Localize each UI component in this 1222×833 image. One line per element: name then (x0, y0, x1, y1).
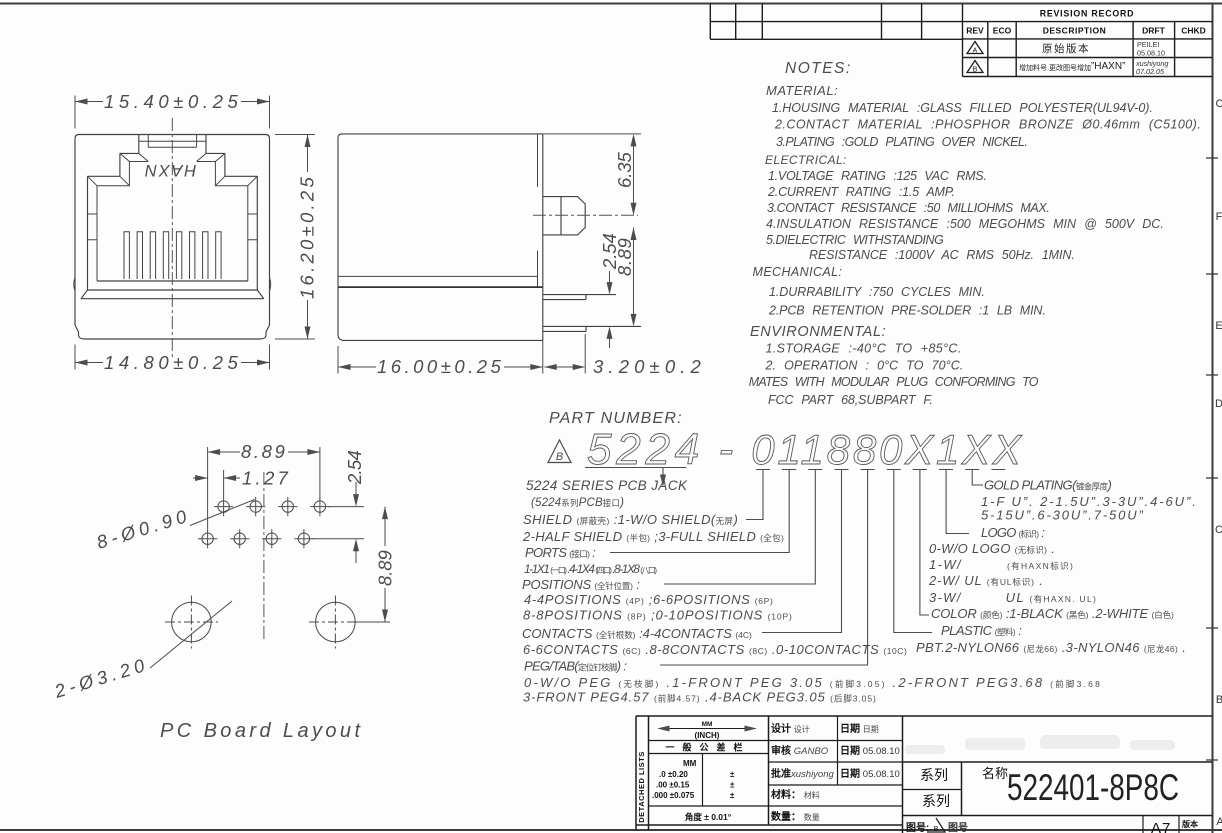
side view top edge extension (543, 133, 641, 135)
svg-text:1-1X1 (一口) .4-1X4 (四口) .8-1X8: 1-1X1 (一口) .4-1X4 (四口) .8-1X8 (八口) (524, 562, 657, 576)
svg-text:A7: A7 (1151, 820, 1171, 833)
side view inner face line (537, 135, 539, 288)
svg-text:2-Ø3.20: 2-Ø3.20 (51, 654, 149, 702)
svg-text:数量： 数量: 数量： 数量 (771, 810, 820, 823)
svg-text:LOGO (标识) :: LOGO (标识) : (981, 525, 1045, 540)
front view opening bottom lines (81, 281, 264, 299)
side view peg (543, 197, 585, 235)
svg-text:8.89: 8.89 (241, 441, 287, 462)
svg-text:角度 ± 0.01°: 角度 ± 0.01° (685, 812, 732, 822)
svg-text:DRFT: DRFT (1142, 26, 1165, 36)
faint ghost marks in empty cell (905, 735, 1175, 754)
svg-text:B: B (934, 826, 939, 833)
svg-text:1.27: 1.27 (242, 468, 290, 489)
svg-text:.000 ±0.075: .000 ±0.075 (652, 791, 695, 800)
svg-text:4-4POSITIONS (4P) ;6-6POSITION: 4-4POSITIONS (4P) ;6-6POSITIONS (6P) (524, 592, 773, 607)
svg-text:0-W/O LOGO (无标识) .: 0-W/O LOGO (无标识) . (929, 541, 1055, 556)
front view body outline (75, 135, 270, 340)
svg-text:MM: MM (683, 759, 697, 768)
svg-text:系列: 系列 (922, 793, 950, 809)
svg-text:FCC PART 68,SUBPART F.: FCC PART 68,SUBPART F. (768, 393, 933, 407)
svg-text:DESCRIPTION: DESCRIPTION (1043, 26, 1107, 36)
svg-text:日期 05.08.10: 日期 05.08.10 (840, 744, 900, 757)
svg-text:1.STORAGE :-40°C TO +85°C.: 1.STORAGE :-40°C TO +85°C. (766, 342, 962, 356)
svg-text:3.20±0.2: 3.20±0.2 (593, 356, 703, 377)
svg-text:E: E (1215, 320, 1222, 332)
svg-text:2-HALF SHIELD (半包) ;3-FULL S: 2-HALF SHIELD (半包) ;3-FULL SHIELD (全包) (522, 529, 784, 544)
leader char8 1 to LOGO (946, 470, 969, 534)
svg-text:ELECTRICAL:: ELECTRICAL: (765, 153, 847, 167)
svg-text:5-15U”.6-30U”.7-50U”: 5-15U”.6-30U”.7-50U” (981, 508, 1143, 523)
svg-text:ECO: ECO (993, 26, 1012, 36)
front view vertical centerline (171, 118, 173, 357)
right section lines (903, 762, 1213, 833)
svg-text:2. OPERATION : 0°C TO 70°: 2. OPERATION : 0°C TO 70°C. (765, 359, 964, 373)
svg-text:NOTES:: NOTES: (785, 60, 852, 77)
svg-text:1.DURRABILITY :750 CYCLES M: 1.DURRABILITY :750 CYCLES MIN. (769, 285, 985, 299)
svg-text:-: - (719, 425, 734, 474)
svg-text:16.00±0.25: 16.00±0.25 (377, 356, 503, 377)
front view socket opening outer (88, 135, 258, 291)
svg-text:±: ± (730, 781, 735, 790)
svg-text:PBT.2-NYLON66 (尼龙66) .3-NYLON4: PBT.2-NYLON66 (尼龙66) .3-NYLON46 (尼龙46) . (916, 640, 1186, 655)
svg-text:8.89: 8.89 (375, 548, 396, 586)
svg-text:ENVIRONMENTAL:: ENVIRONMENTAL: (750, 324, 886, 340)
svg-text:2.CONTACT MATERIAL :PHOSPHO: 2.CONTACT MATERIAL :PHOSPHOR BRONZE Ø0.4… (774, 118, 1201, 132)
pcb pattern centerline (263, 472, 265, 642)
svg-text:名称: 名称 (982, 766, 1008, 781)
svg-text:16.20±0.25: 16.20±0.25 (297, 175, 318, 299)
svg-text:3-FRONT PEG4.57 (前脚4.57) .4-B: 3-FRONT PEG4.57 (前脚4.57) .4-BACK PEG3.05… (523, 690, 876, 705)
svg-text:图号:: 图号: (906, 822, 929, 833)
svg-text:3.CONTACT RESISTANCE :50 MI: 3.CONTACT RESISTANCE :50 MILLIOHMS MAX. (767, 201, 1050, 215)
svg-text:设计 设计: 设计 设计 (771, 722, 810, 735)
pcb dim 8.89 right (355, 507, 390, 622)
svg-text:07.02.05: 07.02.05 (1136, 67, 1165, 76)
svg-text:1.VOLTAGE RATING :125 VAC: 1.VOLTAGE RATING :125 VAC RMS. (768, 169, 987, 183)
side view peg centerline (533, 214, 638, 216)
svg-text:REV: REV (966, 26, 984, 36)
char ticks under part number (756, 469, 1005, 471)
svg-text:6-6CONTACTS (6C) .8-8CONTACTS: 6-6CONTACTS (6C) .8-8CONTACTS (8C) .0-10… (523, 642, 907, 657)
revision triangle B (967, 61, 983, 73)
leader char7 X to COLOR (920, 470, 929, 616)
revision row2 drft (1135, 59, 1168, 76)
dimension 8.89 line (side) (633, 228, 635, 315)
svg-text:PC Board Layout: PC Board Layout (160, 720, 362, 742)
pcb leader 2-dia3.20 (150, 601, 232, 668)
front view chamfer diagonals (88, 153, 258, 185)
svg-text:COLOR (颜色) :1-BLACK (黑色) .2-WH: COLOR (颜色) :1-BLACK (黑色) .2-WHITE (白色) (931, 606, 1174, 621)
svg-text:15.40±0.25: 15.40±0.25 (104, 91, 240, 112)
tolerance table lines (649, 741, 769, 807)
svg-text:B: B (556, 451, 563, 463)
svg-text:B: B (1216, 694, 1222, 706)
svg-text:0-W/O PEG (无枝脚) .1-FRONT PEG: 0-W/O PEG (无枝脚) .1-FRONT PEG 3.05 (前脚3.0… (524, 675, 1100, 690)
pcb small holes top row (214, 497, 330, 516)
front view socket opening inner contour (97, 162, 248, 282)
svg-text:C: C (1215, 524, 1222, 536)
svg-text:CONTACTS (全针根数) :4-4CONTACTS (: CONTACTS (全针根数) :4-4CONTACTS (4C) (522, 626, 752, 641)
tolerance row3 values (652, 759, 735, 800)
front view side groove ticks (88, 214, 258, 240)
tick from 5224 underline down to series text (662, 468, 664, 483)
svg-text:(INCH): (INCH) (695, 731, 720, 740)
svg-text:增加料号.更改图号增加”HAXN”: 增加料号.更改图号增加”HAXN” (1019, 61, 1125, 72)
svg-text:A: A (973, 48, 978, 55)
svg-text:批准xushiyong: 批准xushiyong (771, 767, 834, 780)
side view base separation lines (338, 275, 538, 277)
svg-text:6.35: 6.35 (614, 150, 635, 188)
middle column lines (769, 716, 903, 806)
pcb dim 1.27 (193, 470, 240, 497)
pcb big hole left (165, 596, 218, 649)
svg-text:4.INSULATION RESISTANCE :500: 4.INSULATION RESISTANCE :500 MEGOHMS MIN… (766, 217, 1164, 231)
svg-text:B: B (973, 67, 978, 74)
underline under 5224 (585, 467, 687, 469)
pcb big hole right (309, 596, 362, 649)
svg-text:.0 ±0.20: .0 ±0.20 (659, 770, 688, 779)
leader char9 X to GOLD (972, 470, 983, 486)
part number triangle B (548, 440, 571, 463)
middle rows: design/audit/approve/material/qty (771, 722, 900, 823)
pcb dim 2.54 right (312, 482, 364, 563)
svg-text:图号: 图号 (948, 822, 968, 833)
svg-text:审核 GANBO: 审核 GANBO (771, 744, 829, 757)
svg-text:PLASTIC (塑料) :: PLASTIC (塑料) : (941, 623, 1022, 638)
svg-text:3-W/ UL (有HAXN. UL): 3-W/ UL (有HAXN. UL) (929, 590, 1096, 605)
revision table header text (966, 9, 1206, 36)
svg-text:2-W/ UL (有UL标识) .: 2-W/ UL (有UL标识) . (928, 573, 1043, 588)
svg-text:5.DIELECTRIC WITHSTANDING: 5.DIELECTRIC WITHSTANDING (766, 233, 944, 247)
svg-text:522401-8P8C: 522401-8P8C (1007, 767, 1179, 808)
svg-text:8-8POSITIONS (8P) ;0-10POSITIO: 8-8POSITIONS (8P) ;0-10POSITIONS (10P) (523, 608, 792, 623)
leader char2 1 to PORTS (610, 470, 789, 553)
dimension 3.20 ext line (545, 334, 586, 374)
svg-text:2.PCB RETENTION PRE-SOLDER :: 2.PCB RETENTION PRE-SOLDER :1 LB MIN. (768, 304, 1046, 318)
svg-text:(5224系列PCB接口): (5224系列PCB接口) (531, 497, 624, 509)
zone ticks (1206, 158, 1218, 760)
svg-text:.00 ±0.15: .00 ±0.15 (656, 781, 690, 790)
svg-text:2.54: 2.54 (599, 231, 620, 270)
svg-text:POSITIONS (全针位置) :: POSITIONS (全针位置) : (522, 577, 640, 592)
front view latch slot lines (139, 135, 206, 148)
svg-text:SHIELD (屏蔽壳) :1-W/O SHIELD(无屏: SHIELD (屏蔽壳) :1-W/O SHIELD(无屏) (523, 512, 738, 527)
svg-text:011880X1XX: 011880X1XX (751, 426, 1023, 473)
svg-text:5224 SERIES PCB JACK: 5224 SERIES PCB JACK (526, 478, 688, 493)
svg-text:05.08.10: 05.08.10 (1137, 49, 1165, 58)
svg-text:PEG/TAB(定位钉枝脚) :: PEG/TAB(定位钉枝脚) : (524, 659, 627, 674)
svg-text:REVISION RECORD: REVISION RECORD (1040, 9, 1135, 19)
title block outer (636, 716, 1213, 833)
side view body outline (338, 134, 543, 341)
svg-text:DETACHED LISTS: DETACHED LISTS (637, 751, 646, 822)
svg-text:MATERIAL:: MATERIAL: (766, 83, 838, 98)
svg-text:材料： 材料: 材料： 材料 (771, 788, 820, 801)
svg-text:±: ± (730, 791, 735, 800)
svg-text:F: F (1216, 211, 1222, 223)
svg-text:1-W/ (有HAXN标识): 1-W/ (有HAXN标识) (929, 557, 1073, 572)
zone letters right margin (1215, 98, 1222, 828)
svg-text:5224: 5224 (587, 425, 704, 474)
svg-text:A: A (1216, 816, 1222, 828)
top-left approval table (empty cells) (710, 4, 962, 40)
svg-text:2.54: 2.54 (344, 448, 365, 485)
svg-text:8-Ø0.90: 8-Ø0.90 (94, 505, 191, 553)
svg-text:CHKD: CHKD (1181, 26, 1206, 36)
side view leg2 (543, 326, 641, 331)
svg-text:PORTS (接口) :: PORTS (接口) : (525, 545, 596, 560)
front view side draft marks (74, 278, 271, 292)
leader char1 0 to SHIELD (746, 470, 763, 520)
svg-text:GOLD PLATING(镀金厚度): GOLD PLATING(镀金厚度) (984, 478, 1112, 493)
pcb dim 8.89 top ext lines (208, 447, 320, 529)
leader char4 8 to CONTACTS (762, 470, 842, 633)
revision record table (963, 4, 1213, 77)
revision row1 drft (1137, 40, 1165, 58)
dimension 16.00 ext lines (338, 340, 543, 373)
svg-text:±: ± (730, 770, 735, 779)
leader char3 1 to POSITIONS (664, 470, 815, 585)
svg-text:系列: 系列 (920, 767, 948, 783)
svg-text:原始版本: 原始版本 (1042, 42, 1090, 55)
svg-text:版本: 版本 (1181, 819, 1198, 829)
revision triangle A (967, 42, 983, 54)
svg-text:RESISTANCE :1000V AC RMS 50: RESISTANCE :1000V AC RMS 50Hz. 1MIN. (809, 248, 1075, 262)
leader char5 8 to PEG/TAB (660, 470, 868, 666)
svg-text:HAXN: HAXN (143, 161, 196, 179)
dimension 6.35 line (633, 146, 635, 203)
svg-text:一般公差栏: 一般公差栏 (665, 742, 750, 753)
svg-text:日期 日期: 日期 日期 (840, 722, 879, 735)
svg-text:2.CURRENT RATING :1.5 AMP.: 2.CURRENT RATING :1.5 AMP. (767, 185, 955, 199)
pcb leader 8-dia0.90 (190, 500, 255, 526)
svg-text:MM: MM (702, 721, 713, 728)
dimension 16.20 ext lines (275, 135, 315, 340)
leader char6 0 to PLASTIC (894, 470, 932, 633)
side view leg1 (543, 295, 616, 300)
svg-text:日期 05.08.10: 日期 05.08.10 (840, 767, 900, 780)
dimension 15.40 ext lines (75, 96, 270, 129)
svg-text:MATES WITH MODULAR PLUG CO: MATES WITH MODULAR PLUG CONFORMING TO (749, 375, 1039, 389)
svg-text:C: C (1216, 98, 1222, 110)
dimension 2.54 arrows outside (609, 271, 611, 348)
svg-text:D: D (1215, 398, 1222, 410)
bottom row triangle B (927, 818, 945, 832)
pcb small holes bottom row (198, 529, 314, 548)
svg-text:3.PLATING :GOLD PLATING OVE: 3.PLATING :GOLD PLATING OVER NICKEL. (776, 135, 1028, 149)
svg-text:MECHANICAL:: MECHANICAL: (753, 265, 843, 279)
dimension 14.80 ext lines (75, 345, 270, 370)
svg-text:1.HOUSING MATERIAL :GLASS F: 1.HOUSING MATERIAL :GLASS FILLED POLYEST… (772, 101, 1153, 115)
front view 8 contacts (124, 232, 221, 279)
